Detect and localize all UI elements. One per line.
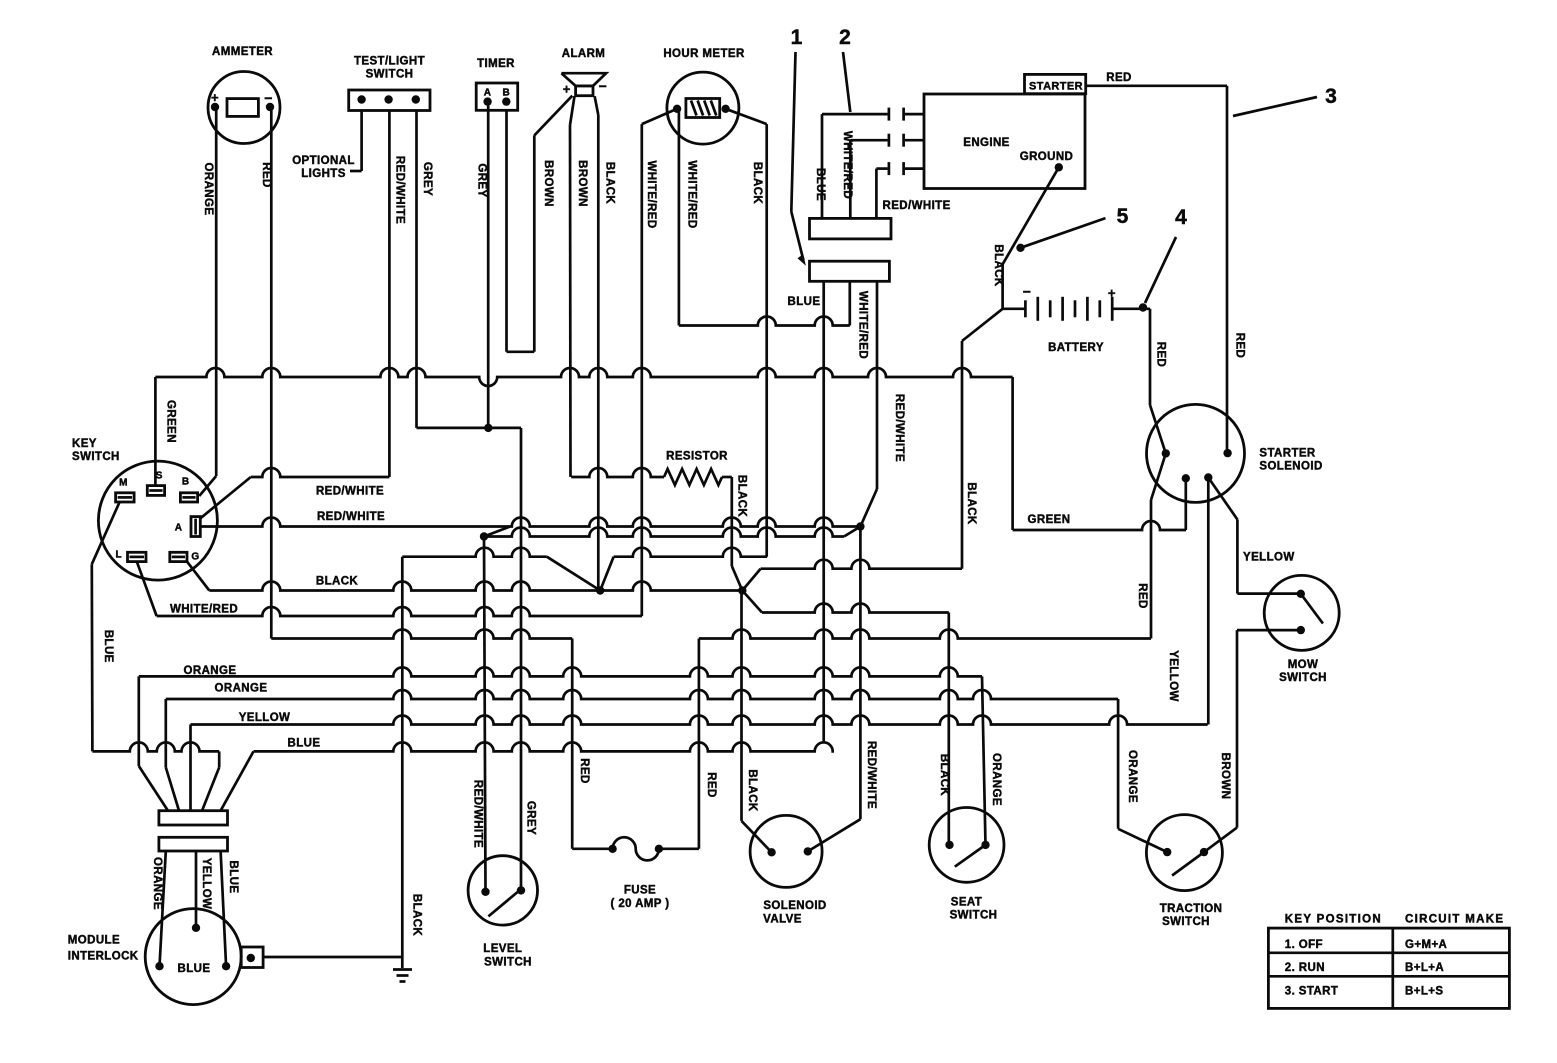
svg-text:YELLOW: YELLOW: [200, 858, 212, 910]
svg-text:SWITCH: SWITCH: [1162, 916, 1210, 928]
svg-text:GREY: GREY: [421, 162, 433, 196]
svg-text:WHITE/RED: WHITE/RED: [645, 160, 657, 228]
svg-text:RED: RED: [705, 772, 717, 797]
svg-text:BLUE: BLUE: [102, 630, 114, 663]
svg-text:B: B: [182, 477, 190, 488]
svg-text:CIRCUIT MAKE: CIRCUIT MAKE: [1405, 914, 1504, 926]
svg-text:STARTER: STARTER: [1259, 448, 1316, 460]
svg-text:TRACTION: TRACTION: [1160, 903, 1223, 915]
svg-text:3. START: 3. START: [1285, 986, 1338, 998]
svg-text:SOLENOID: SOLENOID: [1259, 461, 1322, 473]
svg-text:RED/WHITE: RED/WHITE: [316, 486, 384, 498]
svg-text:M: M: [119, 478, 128, 489]
svg-text:SWITCH: SWITCH: [72, 451, 120, 463]
svg-text:BLUE: BLUE: [227, 861, 239, 894]
svg-text:BLACK: BLACK: [751, 162, 763, 205]
svg-text:RED/WHITE: RED/WHITE: [393, 156, 405, 224]
svg-text:AMMETER: AMMETER: [212, 46, 273, 58]
svg-text:STARTER: STARTER: [1029, 81, 1083, 93]
svg-text:BLACK: BLACK: [411, 894, 423, 937]
svg-text:KEY: KEY: [72, 438, 97, 450]
svg-text:B: B: [502, 88, 510, 99]
svg-text:L: L: [116, 550, 123, 561]
svg-text:ORANGE: ORANGE: [184, 665, 237, 677]
svg-text:ORANGE: ORANGE: [990, 753, 1002, 806]
svg-text:BLUE: BLUE: [288, 738, 321, 750]
svg-text:BROWN: BROWN: [576, 160, 588, 207]
svg-text:RED: RED: [1234, 333, 1246, 358]
svg-text:GREEN: GREEN: [164, 400, 176, 443]
svg-text:1. OFF: 1. OFF: [1285, 939, 1323, 951]
svg-text:5: 5: [1117, 205, 1129, 228]
svg-text:RED: RED: [1136, 583, 1148, 608]
svg-text:SWITCH: SWITCH: [1279, 672, 1327, 684]
svg-text:BLACK: BLACK: [965, 482, 977, 525]
svg-text:RED/WHITE: RED/WHITE: [883, 200, 951, 212]
svg-text:3: 3: [1325, 85, 1337, 108]
svg-text:HOUR METER: HOUR METER: [663, 48, 745, 60]
svg-text:BATTERY: BATTERY: [1048, 342, 1104, 354]
svg-text:ORANGE: ORANGE: [151, 857, 163, 910]
svg-text:GREY: GREY: [476, 163, 488, 197]
svg-text:RED/WHITE: RED/WHITE: [865, 741, 877, 809]
svg-text:RESISTOR: RESISTOR: [666, 451, 728, 463]
svg-text:A: A: [484, 88, 492, 99]
svg-text:FUSE: FUSE: [624, 885, 656, 897]
svg-text:SEAT: SEAT: [951, 897, 982, 909]
svg-text:−: −: [264, 90, 273, 106]
svg-text:BLACK: BLACK: [938, 754, 950, 797]
svg-text:RED: RED: [578, 758, 590, 783]
svg-text:RED: RED: [1155, 342, 1167, 367]
svg-text:LEVEL: LEVEL: [483, 943, 522, 955]
svg-text:YELLOW: YELLOW: [1167, 650, 1179, 702]
svg-text:WHITE/RED: WHITE/RED: [170, 604, 238, 616]
svg-text:( 20 AMP ): ( 20 AMP ): [611, 898, 670, 910]
svg-text:ORANGE: ORANGE: [202, 163, 214, 216]
svg-text:MODULE: MODULE: [68, 935, 120, 947]
svg-text:BLUE: BLUE: [178, 963, 211, 975]
svg-text:SOLENOID: SOLENOID: [763, 900, 826, 912]
svg-text:BLUE: BLUE: [788, 296, 821, 308]
svg-text:RED: RED: [260, 162, 272, 187]
svg-text:S: S: [156, 471, 163, 482]
svg-text:GROUND: GROUND: [1020, 151, 1074, 163]
svg-text:BLACK: BLACK: [992, 244, 1004, 287]
svg-text:BROWN: BROWN: [1219, 753, 1231, 800]
svg-text:BLACK: BLACK: [736, 475, 748, 518]
svg-text:WHITE/RED: WHITE/RED: [686, 160, 698, 228]
svg-text:SWITCH: SWITCH: [484, 957, 532, 969]
svg-text:WHITE/RED: WHITE/RED: [856, 291, 868, 359]
svg-text:MOW: MOW: [1288, 659, 1319, 671]
svg-text:TEST/LIGHT: TEST/LIGHT: [354, 56, 425, 68]
svg-text:LIGHTS: LIGHTS: [301, 168, 346, 180]
svg-text:BROWN: BROWN: [542, 160, 554, 207]
svg-text:2: 2: [839, 26, 851, 49]
svg-text:ALARM: ALARM: [562, 48, 606, 60]
svg-text:2. RUN: 2. RUN: [1285, 962, 1325, 974]
svg-text:−: −: [1023, 284, 1032, 300]
svg-text:VALVE: VALVE: [763, 914, 802, 926]
svg-text:GREY: GREY: [525, 801, 537, 835]
svg-text:A: A: [175, 523, 183, 534]
svg-text:4: 4: [1175, 206, 1187, 229]
svg-text:BLACK: BLACK: [604, 162, 616, 205]
svg-text:INTERLOCK: INTERLOCK: [68, 951, 139, 963]
svg-text:RED: RED: [1106, 72, 1131, 84]
svg-text:OPTIONAL: OPTIONAL: [292, 155, 355, 167]
svg-text:+: +: [1108, 286, 1116, 301]
svg-text:+: +: [211, 90, 219, 105]
svg-text:YELLOW: YELLOW: [239, 712, 291, 724]
svg-text:−: −: [599, 78, 608, 94]
svg-text:YELLOW: YELLOW: [1243, 552, 1295, 564]
svg-text:RED/WHITE: RED/WHITE: [893, 394, 905, 462]
svg-text:BLACK: BLACK: [746, 769, 758, 812]
svg-text:+: +: [563, 81, 571, 96]
svg-text:G: G: [191, 552, 199, 563]
svg-text:KEY POSITION: KEY POSITION: [1285, 914, 1382, 926]
svg-text:GREEN: GREEN: [1028, 514, 1071, 526]
svg-text:SWITCH: SWITCH: [950, 910, 998, 922]
svg-text:G+M+A: G+M+A: [1405, 939, 1447, 951]
svg-text:BLACK: BLACK: [316, 575, 359, 587]
svg-text:ORANGE: ORANGE: [215, 683, 268, 695]
svg-text:ENGINE: ENGINE: [963, 137, 1010, 149]
svg-text:RED/WHITE: RED/WHITE: [472, 780, 484, 848]
svg-text:SWITCH: SWITCH: [366, 69, 414, 81]
svg-text:RED/WHITE: RED/WHITE: [317, 511, 385, 523]
svg-text:B+L+S: B+L+S: [1405, 986, 1443, 998]
svg-text:TIMER: TIMER: [477, 58, 515, 70]
svg-text:BLUE: BLUE: [814, 168, 826, 201]
svg-text:B+L+A: B+L+A: [1405, 962, 1444, 974]
svg-text:1: 1: [791, 26, 803, 49]
svg-text:ORANGE: ORANGE: [1126, 750, 1138, 803]
svg-text:WHITE/RED: WHITE/RED: [841, 131, 853, 199]
